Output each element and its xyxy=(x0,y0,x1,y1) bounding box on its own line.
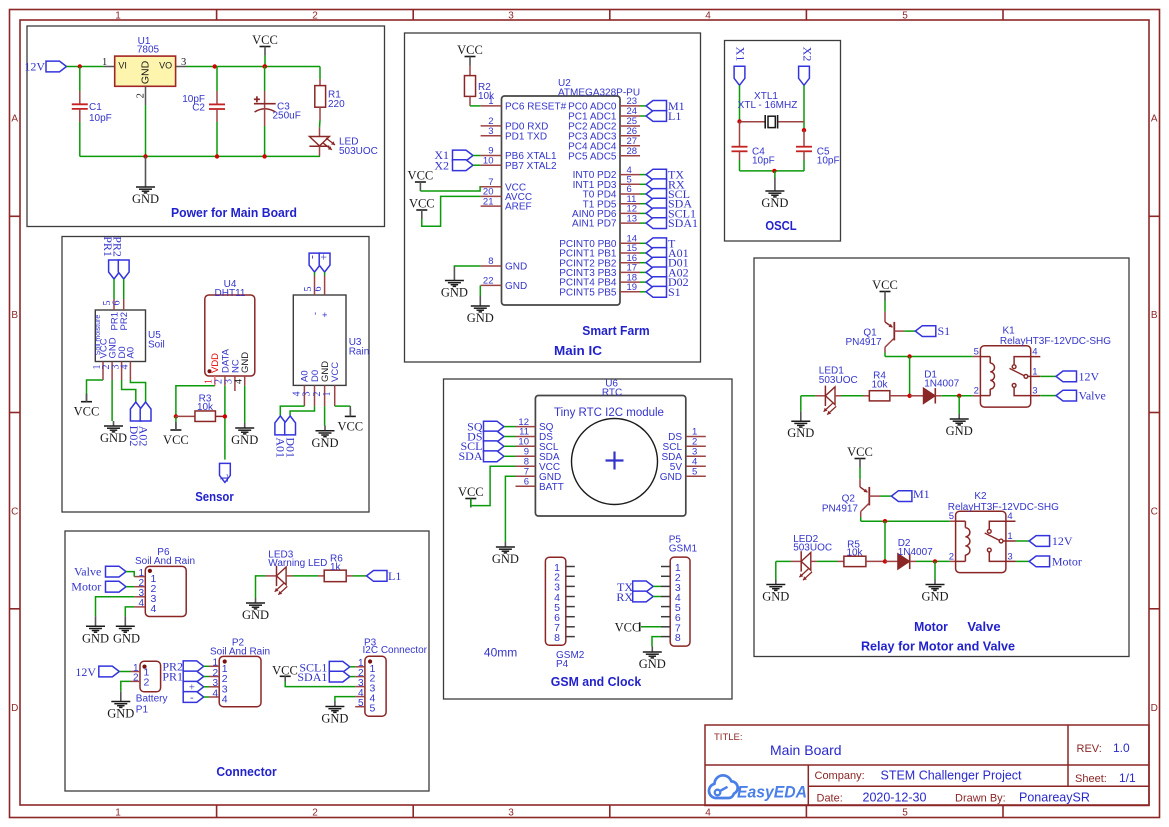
svg-text:1.0: 1.0 xyxy=(1113,741,1130,755)
svg-text:Date:: Date: xyxy=(817,793,843,805)
svg-text:7805: 7805 xyxy=(137,45,160,56)
svg-text:1N4007: 1N4007 xyxy=(898,547,933,558)
svg-text:3: 3 xyxy=(508,10,514,21)
svg-text:VCC: VCC xyxy=(409,197,435,211)
svg-text:X2: X2 xyxy=(801,47,815,62)
svg-text:D: D xyxy=(1151,703,1158,714)
svg-text:GND: GND xyxy=(107,707,134,721)
svg-text:8: 8 xyxy=(675,632,681,644)
svg-text:RX: RX xyxy=(616,590,633,604)
svg-text:BATT: BATT xyxy=(539,482,564,493)
svg-text:K1: K1 xyxy=(1003,326,1016,337)
svg-text:5: 5 xyxy=(358,698,364,709)
svg-text:GND: GND xyxy=(639,657,666,671)
svg-text:EasyEDA: EasyEDA xyxy=(737,784,807,802)
svg-text:GND: GND xyxy=(441,286,468,300)
svg-text:L1: L1 xyxy=(388,569,401,583)
svg-text:SDA1: SDA1 xyxy=(668,216,698,230)
svg-text:+: + xyxy=(317,254,331,261)
svg-text:40mm: 40mm xyxy=(484,646,517,660)
svg-text:VCC: VCC xyxy=(74,405,100,419)
svg-text:10pF: 10pF xyxy=(817,156,840,167)
svg-text:3: 3 xyxy=(1007,551,1012,562)
svg-text:1N4007: 1N4007 xyxy=(924,379,959,390)
svg-text:GND: GND xyxy=(467,311,494,325)
svg-text:12V: 12V xyxy=(1079,369,1100,383)
svg-text:VCC: VCC xyxy=(458,485,484,499)
svg-text:1: 1 xyxy=(1007,531,1012,542)
svg-text:+: + xyxy=(320,312,331,318)
svg-text:PCINT5 PB5: PCINT5 PB5 xyxy=(559,287,617,298)
svg-text:4: 4 xyxy=(151,603,157,615)
svg-text:C2: C2 xyxy=(192,103,205,114)
svg-text:GND: GND xyxy=(240,352,251,373)
svg-text:VCC: VCC xyxy=(252,33,278,47)
svg-text:A02: A02 xyxy=(137,426,151,447)
svg-text:VCC: VCC xyxy=(272,663,298,677)
svg-text:C: C xyxy=(11,507,18,518)
svg-text:B: B xyxy=(1151,310,1158,321)
svg-text:22: 22 xyxy=(483,276,494,287)
svg-text:2: 2 xyxy=(312,10,318,21)
svg-text:M1: M1 xyxy=(913,487,930,501)
svg-text:Motor: Motor xyxy=(914,619,948,634)
svg-text:VCC: VCC xyxy=(615,620,641,634)
svg-text:503UOC: 503UOC xyxy=(819,375,858,386)
svg-text:GND: GND xyxy=(505,262,527,273)
svg-text:XTL - 16MHZ: XTL - 16MHZ xyxy=(738,100,798,111)
svg-text:GSM1: GSM1 xyxy=(669,544,698,555)
svg-text:4: 4 xyxy=(705,10,711,21)
svg-text:OSCL: OSCL xyxy=(765,218,796,233)
svg-text:P1: P1 xyxy=(136,704,149,715)
svg-text:12V: 12V xyxy=(24,60,45,74)
svg-text:VCC: VCC xyxy=(847,445,873,459)
svg-text:6: 6 xyxy=(112,301,123,306)
svg-text:Valve: Valve xyxy=(1079,389,1106,403)
svg-text:S1: S1 xyxy=(668,285,681,299)
svg-text:10k: 10k xyxy=(197,402,214,413)
svg-text:A: A xyxy=(11,114,18,125)
svg-text:RTC: RTC xyxy=(602,387,622,398)
svg-text:6: 6 xyxy=(313,287,324,292)
svg-text:10k: 10k xyxy=(871,380,888,391)
svg-text:-: - xyxy=(190,691,194,703)
svg-text:GND: GND xyxy=(787,426,814,440)
svg-text:GND: GND xyxy=(505,281,527,292)
svg-text:5: 5 xyxy=(902,807,908,818)
svg-text:4: 4 xyxy=(119,365,130,370)
svg-text:GND: GND xyxy=(82,631,109,645)
svg-text:PD1 TXD: PD1 TXD xyxy=(505,131,547,142)
svg-text:1: 1 xyxy=(115,807,121,818)
svg-text:Battery: Battery xyxy=(136,694,168,705)
svg-text:GND: GND xyxy=(660,472,682,483)
svg-text:2: 2 xyxy=(949,551,954,562)
svg-text:PR2: PR2 xyxy=(110,236,124,257)
svg-text:4: 4 xyxy=(705,807,711,818)
svg-text:Soil: Soil xyxy=(148,340,165,351)
svg-text:4: 4 xyxy=(138,598,144,609)
svg-text:PR1: PR1 xyxy=(162,670,183,684)
svg-text:I2C Connector: I2C Connector xyxy=(363,645,428,656)
svg-text:PonareaySR: PonareaySR xyxy=(1019,791,1090,805)
svg-text:L1: L1 xyxy=(668,109,681,123)
svg-text:5: 5 xyxy=(902,10,908,21)
svg-text:PC5 ADC5: PC5 ADC5 xyxy=(568,151,617,162)
svg-text:1: 1 xyxy=(115,10,121,21)
svg-text:PR2: PR2 xyxy=(119,312,130,330)
svg-text:DHT11: DHT11 xyxy=(215,288,246,299)
svg-text:6: 6 xyxy=(524,476,529,487)
svg-text:19: 19 xyxy=(627,282,638,293)
svg-text:RelayHT3F-12VDC-SHG: RelayHT3F-12VDC-SHG xyxy=(1000,336,1111,347)
svg-text:10k: 10k xyxy=(846,548,863,559)
svg-text:Company:: Company: xyxy=(815,770,865,782)
svg-text:3: 3 xyxy=(488,126,493,137)
svg-text:VI: VI xyxy=(118,61,127,71)
svg-text:5: 5 xyxy=(974,347,979,358)
svg-text:GND: GND xyxy=(132,192,159,206)
svg-text:PB7 XTAL2: PB7 XTAL2 xyxy=(505,161,557,172)
svg-text:VCC: VCC xyxy=(872,278,898,292)
svg-text:S1: S1 xyxy=(938,324,951,338)
svg-text:Rain: Rain xyxy=(349,347,370,358)
svg-text:VCC: VCC xyxy=(163,433,189,447)
svg-text:AREF: AREF xyxy=(505,202,532,213)
svg-text:TITLE:: TITLE: xyxy=(714,732,743,743)
svg-text:2: 2 xyxy=(136,93,147,98)
svg-text:GND: GND xyxy=(492,552,519,566)
svg-text:Main Board: Main Board xyxy=(770,742,842,758)
svg-text:5: 5 xyxy=(370,703,376,715)
svg-text:PC6 RESET#: PC6 RESET# xyxy=(505,102,567,113)
svg-text:GND: GND xyxy=(242,608,269,622)
svg-text:503UOC: 503UOC xyxy=(339,146,378,157)
svg-text:1/1: 1/1 xyxy=(1119,771,1136,785)
svg-text:1: 1 xyxy=(102,57,107,68)
svg-text:12V: 12V xyxy=(75,665,96,679)
svg-text:GND: GND xyxy=(921,590,948,604)
svg-text:503UOC: 503UOC xyxy=(793,543,832,554)
svg-text:GND: GND xyxy=(761,196,788,210)
svg-text:GND: GND xyxy=(311,436,338,450)
svg-text:GND: GND xyxy=(139,60,151,84)
svg-text:K2: K2 xyxy=(974,491,987,502)
svg-text:Tiny RTC I2C module: Tiny RTC I2C module xyxy=(554,407,664,419)
svg-text:8: 8 xyxy=(488,256,493,267)
svg-text:Drawn By:: Drawn By: xyxy=(955,793,1006,805)
svg-text:220: 220 xyxy=(328,99,345,110)
svg-text:GND: GND xyxy=(946,424,973,438)
svg-text:GND: GND xyxy=(762,590,789,604)
svg-text:Soil And Rain: Soil And Rain xyxy=(210,647,270,658)
svg-text:2: 2 xyxy=(312,807,318,818)
svg-text:13: 13 xyxy=(627,213,638,224)
svg-text:SDA1: SDA1 xyxy=(297,670,327,684)
svg-text:2: 2 xyxy=(974,386,979,397)
svg-text:28: 28 xyxy=(627,146,638,157)
svg-text:10: 10 xyxy=(483,155,494,166)
svg-text:1: 1 xyxy=(1032,366,1037,377)
svg-text:Valve: Valve xyxy=(74,565,101,579)
svg-text:PN4917: PN4917 xyxy=(822,504,859,515)
svg-text:4: 4 xyxy=(222,694,228,706)
svg-text:GND: GND xyxy=(100,431,127,445)
svg-text:P4: P4 xyxy=(556,659,569,670)
svg-text:3: 3 xyxy=(181,57,186,68)
svg-text:A: A xyxy=(1151,114,1158,125)
svg-text:REV:: REV: xyxy=(1077,743,1102,755)
svg-text:AIN1 PD7: AIN1 PD7 xyxy=(572,219,617,230)
svg-text:Relay for Motor and Valve: Relay for Motor and Valve xyxy=(861,639,1015,654)
svg-text:Sensor: Sensor xyxy=(195,489,234,504)
svg-text:10pF: 10pF xyxy=(752,156,775,167)
svg-text:250uF: 250uF xyxy=(273,111,301,122)
svg-text:D01: D01 xyxy=(283,437,297,458)
svg-text:10pF: 10pF xyxy=(89,113,112,124)
svg-text:T: T xyxy=(217,474,231,482)
svg-text:A0: A0 xyxy=(126,347,137,359)
svg-text:VO: VO xyxy=(159,61,172,71)
svg-text:SDA: SDA xyxy=(458,449,482,463)
svg-text:8: 8 xyxy=(554,632,560,644)
svg-text:3: 3 xyxy=(508,807,514,818)
svg-text:X1: X1 xyxy=(734,47,748,62)
svg-text:Warning LED: Warning LED xyxy=(268,558,327,569)
svg-text:STEM Challenger Project: STEM Challenger Project xyxy=(881,769,1023,783)
svg-text:Main IC: Main IC xyxy=(554,343,603,358)
svg-text:D: D xyxy=(11,703,18,714)
svg-text:4: 4 xyxy=(1032,347,1037,358)
svg-text:21: 21 xyxy=(483,196,494,207)
svg-text:4: 4 xyxy=(234,379,245,384)
svg-text:VCC: VCC xyxy=(408,169,434,183)
svg-text:2: 2 xyxy=(133,673,139,684)
svg-text:Soil And Rain: Soil And Rain xyxy=(135,556,195,567)
svg-text:Connector: Connector xyxy=(216,764,276,779)
svg-text:3: 3 xyxy=(1032,386,1037,397)
svg-text:VCC: VCC xyxy=(330,362,341,382)
svg-text:4: 4 xyxy=(212,688,218,699)
svg-text:12V: 12V xyxy=(1052,534,1073,548)
svg-text:Motor: Motor xyxy=(1052,554,1082,568)
svg-text:Motor: Motor xyxy=(71,580,101,594)
svg-text:GND: GND xyxy=(113,631,140,645)
svg-text:C: C xyxy=(1151,507,1158,518)
svg-text:GND: GND xyxy=(321,712,348,726)
svg-text:Valve: Valve xyxy=(967,619,1000,634)
svg-text:Sheet:: Sheet: xyxy=(1075,773,1107,785)
svg-text:1: 1 xyxy=(322,392,333,397)
svg-text:RelayHT3F-12VDC-SHG: RelayHT3F-12VDC-SHG xyxy=(948,502,1059,513)
svg-text:VCC: VCC xyxy=(337,419,363,433)
svg-text:2: 2 xyxy=(144,677,150,689)
svg-text:1: 1 xyxy=(488,96,493,107)
svg-text:X2: X2 xyxy=(434,159,449,173)
svg-text:B: B xyxy=(11,310,18,321)
svg-text:1k: 1k xyxy=(330,562,342,573)
svg-text:2020-12-30: 2020-12-30 xyxy=(863,791,927,805)
svg-text:VCC: VCC xyxy=(457,43,483,57)
svg-text:Smart Farm: Smart Farm xyxy=(582,323,649,338)
svg-text:PN4917: PN4917 xyxy=(845,337,882,348)
svg-text:5: 5 xyxy=(692,466,697,477)
svg-text:Power for Main Board: Power for Main Board xyxy=(171,205,297,220)
svg-text:GND: GND xyxy=(231,433,258,447)
svg-text:C1: C1 xyxy=(89,102,102,113)
svg-text:GSM and Clock: GSM and Clock xyxy=(551,674,642,689)
